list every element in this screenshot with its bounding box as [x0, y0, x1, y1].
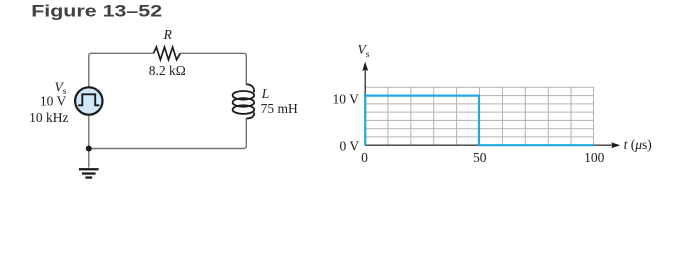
wire top-left segment — [89, 53, 154, 86]
svg-text:100: 100 — [584, 150, 605, 165]
svg-text:8.2 kΩ: 8.2 kΩ — [149, 63, 186, 78]
svg-text:t (μs): t (μs) — [624, 137, 652, 152]
svg-text:R: R — [163, 27, 173, 42]
x-axis t — [365, 144, 614, 146]
svg-text:0: 0 — [361, 150, 368, 165]
source Vs (pulse generator) — [75, 87, 102, 114]
svg-text:Figure 13–52: Figure 13–52 — [31, 3, 162, 21]
pulse symbol inside source — [78, 94, 99, 105]
svg-text:10 V: 10 V — [40, 94, 67, 109]
svg-text:75 mH: 75 mH — [261, 101, 298, 116]
svg-text:10 kHz: 10 kHz — [29, 110, 68, 125]
svg-text:0 V: 0 V — [340, 138, 360, 153]
wire top-right segment — [180, 53, 246, 84]
y-axis Vs — [364, 68, 366, 145]
svg-text:L: L — [261, 86, 270, 101]
svg-text:Vs: Vs — [358, 42, 370, 60]
ground — [79, 168, 99, 179]
waveform pulse — [365, 96, 594, 146]
svg-text:10 V: 10 V — [333, 91, 360, 106]
resistor R — [154, 47, 181, 60]
graph grid — [365, 87, 594, 145]
svg-text:50: 50 — [473, 150, 487, 165]
inductor L coil — [246, 84, 254, 92]
wire source-to-ground segment — [88, 116, 90, 168]
wire right-bottom segment — [89, 118, 247, 148]
node junction dot — [86, 146, 92, 152]
